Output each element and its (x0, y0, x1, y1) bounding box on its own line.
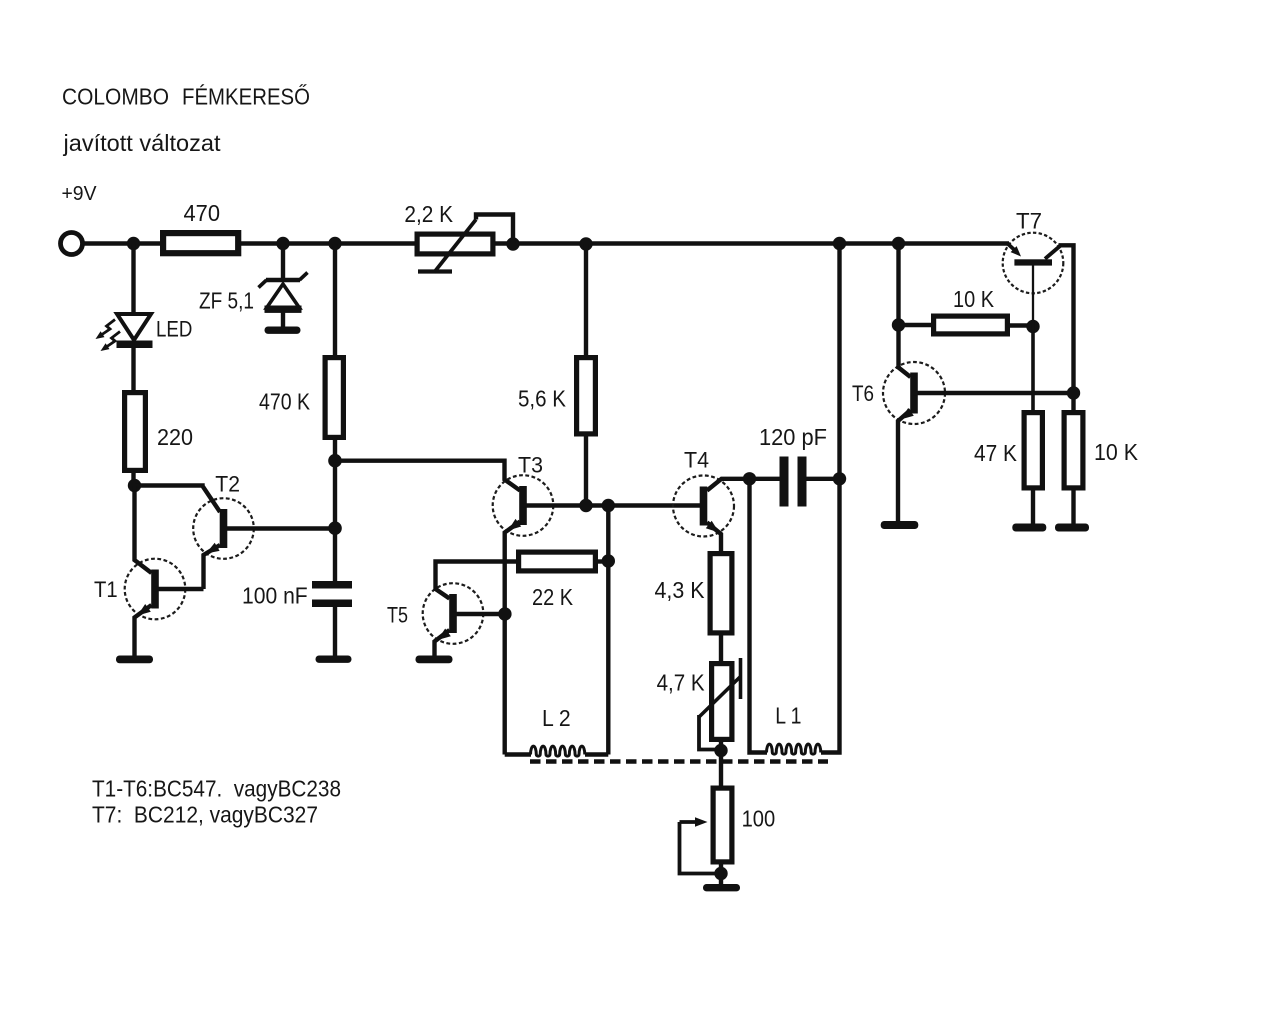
svg-text:javított változat: javított változat (62, 130, 220, 156)
resistor R 47 K (1024, 413, 1042, 488)
wire 4,3K to 4,7K (719, 634, 723, 664)
zener diode ZF 5,1 (259, 273, 308, 328)
node 10K left (892, 318, 905, 331)
node 470K-T2base (328, 521, 342, 535)
label 2,2 K (404, 201, 453, 227)
transistor T2 (193, 498, 254, 559)
node T3-5.6K (579, 499, 592, 512)
svg-text:FÉMKERESŐ: FÉMKERESŐ (182, 84, 310, 110)
label T3 (518, 453, 543, 478)
T2 base wire (223, 526, 336, 530)
transistor T6 (883, 362, 945, 424)
svg-text:T6: T6 (852, 381, 874, 406)
T7 emitter wire (1008, 244, 1021, 257)
T6 base wire (913, 391, 1074, 395)
transistor T3 (493, 475, 554, 536)
svg-text:T3: T3 (518, 453, 543, 478)
wire cap to ground (333, 606, 337, 656)
T3 base wire (522, 503, 700, 507)
node T5-T3emitter (498, 607, 511, 620)
label 47 K (974, 440, 1018, 466)
node T4-L1 (743, 472, 756, 485)
LED light arrows (96, 320, 121, 352)
wire L2 right bus (606, 506, 610, 755)
node 470K-T3base (328, 454, 342, 468)
wire rail to 470K (333, 244, 337, 359)
ground T1 (116, 656, 153, 664)
T1 base wire (154, 587, 204, 591)
svg-text:COLOMBO: COLOMBO (62, 84, 169, 110)
svg-text:4,3 K: 4,3 K (655, 577, 706, 603)
potentiometer R 2,2 K (417, 234, 493, 254)
T4 collector wire (707, 479, 780, 491)
label T5 (387, 603, 408, 628)
svg-text:220: 220 (157, 424, 193, 450)
label 100 (742, 806, 776, 832)
wire 10K left lead (899, 323, 933, 327)
wire L1 left (750, 479, 768, 753)
subtitle text (62, 130, 220, 156)
resistor R 4,3 K (710, 554, 732, 633)
node cap-L1bus (833, 472, 846, 485)
wire cap to L1bus (807, 477, 840, 481)
node rail-5.6K (579, 237, 592, 250)
svg-text:T1-T6:BC547. vagyBC238: T1-T6:BC547. vagyBC238 (92, 776, 341, 802)
svg-text:470: 470 (184, 200, 221, 226)
title word 2 (182, 84, 310, 110)
label 10 K right (1094, 439, 1139, 465)
svg-text:+9V: +9V (62, 182, 97, 205)
ground zener (265, 327, 301, 334)
T1 emitter wire (135, 604, 152, 656)
svg-text:120 pF: 120 pF (759, 424, 827, 450)
svg-text:L 1: L 1 (775, 703, 801, 729)
wire 470K to cap (333, 438, 337, 581)
T3 emitter wire (505, 519, 522, 755)
svg-text:2,2 K: 2,2 K (404, 201, 453, 227)
T7 base wire (1032, 266, 1034, 327)
resistor R 22 K (519, 552, 596, 571)
ground T5 (416, 656, 453, 664)
shield dashed line (530, 759, 828, 764)
pot 4,7K wiper (699, 658, 741, 750)
T6 collector wire (899, 366, 911, 377)
wire LED to 220 (131, 347, 135, 391)
T1 collector wire (135, 486, 152, 574)
T2 collector wire (135, 486, 221, 513)
wire L2 bottom right (585, 752, 608, 756)
svg-text:T7: BC212, vagyBC327: T7: BC212, vagyBC327 (92, 802, 318, 828)
wire rail to LED (131, 244, 135, 316)
T2 emitter wire (204, 543, 221, 589)
label ZF 5,1 (199, 288, 254, 314)
wire 100 to ground (719, 862, 723, 885)
svg-text:LED: LED (156, 317, 192, 342)
resistor R 5,6 K (577, 358, 596, 434)
wire 5,6K to T3 lead (584, 435, 588, 507)
label L 1 (775, 703, 801, 729)
wire rail to T6 (896, 244, 900, 368)
label 10 K horizontal (953, 286, 995, 312)
ground 100nF (316, 656, 352, 663)
label 220 (157, 424, 193, 450)
transistor T7 (1003, 233, 1064, 294)
title word 1 (62, 84, 169, 110)
svg-text:5,6 K: 5,6 K (518, 386, 567, 412)
T3 input wire (335, 461, 520, 491)
resistor R 10 K horizontal (934, 316, 1008, 334)
node rail-470K (328, 237, 341, 250)
wire L1 right (821, 244, 840, 753)
capacitor C 120 pF (780, 457, 807, 507)
svg-text:47 K: 47 K (974, 440, 1018, 466)
svg-text:4,7 K: 4,7 K (657, 670, 706, 696)
label T4 (684, 448, 709, 473)
rheostat 100 arrow (680, 817, 722, 873)
node 10K right (1026, 320, 1039, 333)
T5 collector wire (436, 562, 517, 599)
ground 100 (703, 884, 740, 891)
node rail-LED (127, 237, 140, 250)
T7 collector wire (1045, 245, 1074, 412)
svg-text:ZF 5,1: ZF 5,1 (199, 288, 254, 314)
wire rail to 5,6K (584, 244, 588, 359)
T6 emitter wire (898, 408, 914, 521)
rheostat R 100 (713, 788, 732, 862)
note line 1 (92, 776, 341, 802)
transistor T5 (423, 583, 484, 644)
potentiometer R 4,7 K (712, 664, 732, 740)
coil L1 (767, 744, 821, 754)
label 4,3 K (655, 577, 706, 603)
svg-text:T7: T7 (1016, 209, 1042, 234)
label 100 nF (242, 583, 308, 609)
transistor T1 (125, 559, 186, 620)
label 22 K (532, 584, 574, 610)
note line 2 (92, 802, 318, 828)
svg-text:T2: T2 (215, 472, 240, 497)
wire rail to zener (281, 244, 285, 283)
label T1 (94, 577, 118, 602)
label T6 (852, 381, 874, 406)
terminal +9V (61, 233, 83, 255)
resistor R 470 K (325, 358, 343, 438)
svg-text:22 K: 22 K (532, 584, 574, 610)
T5 emitter wire (435, 629, 451, 657)
svg-text:T4: T4 (684, 448, 709, 473)
wire 10Kright to ground (1071, 489, 1075, 525)
label +9V (62, 182, 97, 205)
wire L2 bottom left (505, 752, 531, 756)
label 120 pF (759, 424, 827, 450)
svg-text:100: 100 (742, 806, 776, 832)
wire node to 100 (719, 751, 723, 788)
wire 220 to node (131, 472, 135, 486)
T4 emitter wire (706, 521, 721, 553)
node rail-L1 (833, 237, 846, 250)
label 470 K (259, 389, 311, 415)
svg-text:470 K: 470 K (259, 389, 311, 415)
label 4,7 K (657, 670, 706, 696)
label L 2 (542, 705, 571, 731)
transistor T4 (673, 476, 734, 537)
ground 10K right (1055, 524, 1089, 532)
label 5,6 K (518, 386, 567, 412)
label T2 (215, 472, 240, 497)
node 100-ground (714, 867, 727, 880)
coil L2 (531, 746, 585, 756)
resistor R 470 (163, 233, 238, 253)
node 22K-L2 (602, 554, 615, 567)
svg-text:T5: T5 (387, 603, 408, 628)
node 4,7K-100 (714, 744, 727, 757)
svg-text:100 nF: 100 nF (242, 583, 308, 609)
svg-text:L 2: L 2 (542, 705, 571, 731)
svg-text:10 K: 10 K (1094, 439, 1139, 465)
node T3-22K (602, 499, 615, 512)
wire +9V rail (83, 241, 1009, 245)
capacitor C 100 nF (312, 581, 352, 607)
wire 10K right lead (1008, 323, 1033, 327)
T5 base wire (452, 612, 506, 616)
label 470 (184, 200, 221, 226)
22K right wire (596, 559, 608, 563)
node T6base-T7coll (1067, 386, 1080, 399)
wire 47K to ground (1031, 489, 1035, 525)
node rail-T6 (892, 237, 905, 250)
ground T6 (881, 521, 919, 529)
label T7 (1016, 209, 1042, 234)
label LED (156, 317, 192, 342)
node T1T2 collectors (128, 479, 141, 492)
resistor R 10 K right (1064, 413, 1083, 488)
node rail-zener (276, 237, 289, 250)
node rail-pot (506, 237, 519, 250)
svg-text:T1: T1 (94, 577, 118, 602)
resistor R 220 (125, 393, 146, 471)
svg-text:10 K: 10 K (953, 286, 995, 312)
wire T7base to 47K (1031, 327, 1035, 413)
wire 4,7K to node (719, 740, 723, 751)
pot 2,2K wiper (418, 215, 513, 273)
ground 47K (1012, 524, 1046, 532)
LED D1 (117, 314, 153, 348)
